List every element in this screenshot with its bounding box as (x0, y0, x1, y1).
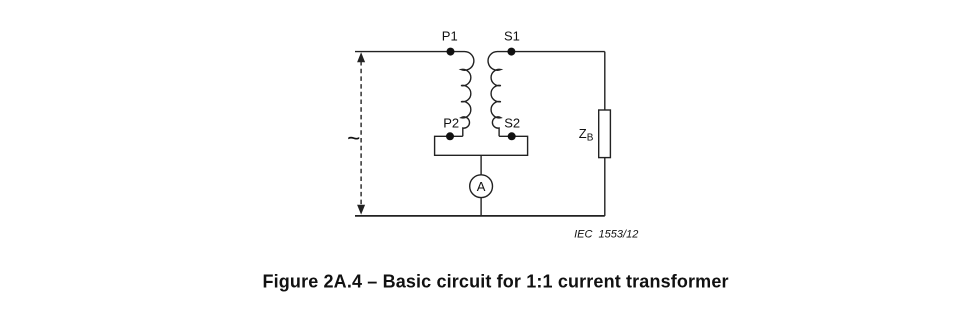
ac source arrowhead top (357, 52, 365, 62)
wire right side upper (corner to ZB) (604, 52, 606, 110)
ac source arrowhead bottom (357, 205, 365, 215)
svg-text:S1: S1 (504, 29, 520, 44)
node P1 (447, 48, 455, 56)
resistor ZB burden (599, 110, 611, 158)
svg-text:~: ~ (347, 129, 360, 148)
shorting link bus bar (435, 136, 528, 155)
wire top rail right (S1 to right corner) (511, 51, 604, 53)
ammeter A (470, 175, 493, 198)
wire ammeter bottom lead (480, 198, 482, 216)
svg-text:P1: P1 (442, 28, 458, 43)
svg-text:P2: P2 (443, 116, 459, 131)
svg-text:S2: S2 (504, 116, 520, 131)
wire ammeter top lead (480, 155, 482, 175)
wire bottom rail (355, 215, 605, 217)
svg-text:Figure 2A.4 – Basic circuit fo: Figure 2A.4 – Basic circuit for 1:1 curr… (263, 271, 729, 291)
ac source dashed line (360, 61, 362, 205)
transformer primary winding P1-P2 (461, 52, 474, 137)
wire right side lower (ZB to bottom rail) (604, 158, 606, 216)
node S1 (507, 48, 515, 56)
node S2 (508, 132, 516, 140)
svg-text:IEC 1553/12: IEC 1553/12 (574, 228, 638, 240)
transformer secondary winding S1-S2 (488, 52, 511, 137)
svg-text:ZB: ZB (579, 126, 594, 144)
wire top rail left (source to P1) (355, 51, 465, 53)
svg-text:A: A (477, 179, 486, 194)
node P2 (446, 132, 454, 140)
